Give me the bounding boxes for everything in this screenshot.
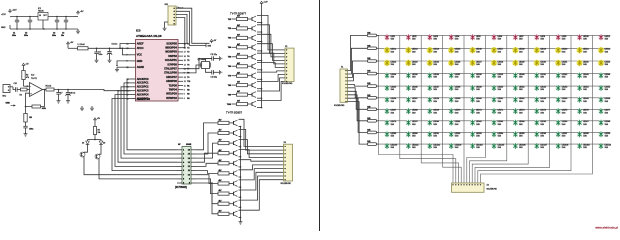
LED D36 row 4 col 3 xyxy=(427,73,439,79)
svg-text:LED65: LED65 xyxy=(583,98,589,100)
wire collector B1 xyxy=(239,119,284,146)
wire base stub T3 xyxy=(228,38,237,40)
svg-text:ADC4/PC4: ADC4/PC4 xyxy=(137,93,149,96)
svg-text:LED72: LED72 xyxy=(498,110,504,112)
svg-text:T70: T70 xyxy=(228,76,231,78)
svg-text:13: 13 xyxy=(184,77,186,79)
svg-text:4k7: 4k7 xyxy=(219,189,222,192)
LED D43 row 4 col 10 xyxy=(577,73,589,79)
svg-text:LED101: LED101 xyxy=(412,145,419,147)
LED D6 row 1 col 6 xyxy=(491,34,502,40)
LED D34 row 4 col 1 xyxy=(384,73,396,79)
LED D17 row 2 col 6 xyxy=(491,47,503,54)
wire base stub T8 xyxy=(228,85,237,87)
svg-text:AREF: AREF xyxy=(137,42,144,45)
LED D100 row 10 col 1 xyxy=(384,143,397,149)
ground IR a xyxy=(80,106,84,111)
svg-text:T10: T10 xyxy=(228,19,231,21)
resistor RR8 row 8 xyxy=(367,118,379,122)
capacitor C4 xyxy=(61,17,68,37)
wire emitter B2 xyxy=(239,136,242,138)
wire GND rail xyxy=(1,25,78,30)
wire emitter T1 xyxy=(257,22,262,24)
wire row feed 6 xyxy=(348,88,368,98)
svg-text:LED36: LED36 xyxy=(433,74,439,76)
svg-text:T3: T3 xyxy=(187,52,189,54)
svg-text:4k7: 4k7 xyxy=(219,149,222,152)
svg-text:LED56: LED56 xyxy=(391,98,397,100)
connector MIC input xyxy=(3,85,16,98)
svg-text:LED57: LED57 xyxy=(412,98,418,100)
LED D7 row 1 col 7 xyxy=(513,34,524,40)
svg-text:T4: T4 xyxy=(187,55,189,58)
svg-text:LED102: LED102 xyxy=(433,145,440,147)
svg-text:C7: C7 xyxy=(60,93,62,95)
svg-text:100k: 100k xyxy=(42,108,46,110)
svg-text:LED16: LED16 xyxy=(476,49,482,51)
wire base drive B7 xyxy=(196,175,218,184)
svg-text:LED92: LED92 xyxy=(455,133,461,135)
svg-text:LED97: LED97 xyxy=(562,133,568,135)
wire row line 10 xyxy=(379,143,610,145)
wire base drive B9 xyxy=(196,183,218,204)
LED D56 row 6 col 1 xyxy=(384,97,396,103)
LED D66 row 6 col 11 xyxy=(598,97,610,103)
svg-text:LED90: LED90 xyxy=(412,133,418,135)
svg-text:4k7: 4k7 xyxy=(237,15,240,18)
voltage regulator IC1 78L05 xyxy=(38,8,48,29)
wire emitter B9 xyxy=(239,207,242,209)
LED D101 row 10 col 2 xyxy=(406,143,419,149)
svg-text:RESET/PC6: RESET/PC6 xyxy=(137,98,151,101)
wire base stub T1 xyxy=(228,19,237,21)
svg-text:LED100: LED100 xyxy=(391,145,398,147)
LED D31 row 3 col 9 xyxy=(555,60,567,67)
svg-text:LED78: LED78 xyxy=(391,121,397,123)
wire opamp out xyxy=(43,89,47,91)
wire +5V rail xyxy=(48,16,74,18)
resistor R23 4k7 xyxy=(218,149,229,155)
svg-text:R4: R4 xyxy=(187,97,189,100)
LED D107 row 10 col 8 xyxy=(534,143,547,149)
resistor R16 4k7 xyxy=(237,71,248,77)
svg-text:LED110: LED110 xyxy=(605,145,611,147)
resistor R13 4k7 xyxy=(237,43,248,49)
svg-text:4k7: 4k7 xyxy=(219,139,222,142)
svg-text:LED71: LED71 xyxy=(476,110,482,112)
svg-text:LED44: LED44 xyxy=(605,74,611,76)
svg-text:T100: T100 xyxy=(227,104,231,106)
LED D8 row 1 col 8 xyxy=(534,34,545,40)
wire row feed 2 xyxy=(348,48,368,74)
wire collector B2 xyxy=(239,129,284,150)
LED D77 row 7 col 11 xyxy=(598,108,610,114)
wire column 4 xyxy=(443,35,462,183)
resistor R2 xyxy=(22,67,29,86)
LED D24 row 3 col 2 xyxy=(405,60,417,67)
svg-text:LED38: LED38 xyxy=(476,74,482,76)
wire ISP4 xyxy=(176,18,185,48)
wire emitter T5 xyxy=(257,60,262,62)
LED D40 row 4 col 7 xyxy=(513,73,525,79)
transistor Q21 BD957 xyxy=(229,130,238,136)
LED D4 row 1 col 4 xyxy=(449,34,460,40)
wire row line 2 xyxy=(379,47,610,49)
svg-text:LED55: LED55 xyxy=(605,87,611,89)
LED D72 row 7 col 6 xyxy=(491,108,503,114)
svg-text:AVCC: AVCC xyxy=(137,47,144,50)
svg-text:VCC: VCC xyxy=(137,54,142,57)
ground IR b xyxy=(90,106,94,111)
svg-text:LED68: LED68 xyxy=(412,110,418,112)
svg-text:20: 20 xyxy=(127,48,129,50)
resistor R14 4k7 xyxy=(237,52,248,58)
svg-text:LED88: LED88 xyxy=(605,121,611,123)
wire row line 6 xyxy=(379,97,610,99)
wire base stub T5 xyxy=(228,57,237,59)
wire ADC2 to IC4 xyxy=(121,87,177,158)
wire Q4 out xyxy=(99,159,177,179)
resistor R5 xyxy=(46,85,55,91)
svg-text:LED48: LED48 xyxy=(455,87,461,89)
svg-text:LED34: LED34 xyxy=(391,74,397,76)
svg-text:LED27: LED27 xyxy=(476,61,482,63)
wire emitter bus xyxy=(240,127,242,220)
resistor R26 4k7 xyxy=(218,179,229,185)
transistor Q23 BD957 xyxy=(229,150,238,156)
wire emitter T4 xyxy=(257,50,262,52)
LED D86 row 8 col 9 xyxy=(556,120,568,126)
svg-text:R5 10k: R5 10k xyxy=(46,85,52,87)
resistor RR9 row 9 xyxy=(367,129,379,133)
svg-text:LED40: LED40 xyxy=(519,74,525,76)
wire ADC0 to IC4 xyxy=(127,79,177,150)
svg-text:LED86: LED86 xyxy=(562,121,568,123)
LED D73 row 7 col 7 xyxy=(513,108,525,114)
svg-text:T6: T6 xyxy=(187,64,189,66)
transistor Q20 BD957 xyxy=(229,120,238,126)
resistor R10 4k7 xyxy=(237,15,248,21)
svg-text:78L05: 78L05 xyxy=(38,11,44,13)
svg-text:LED15: LED15 xyxy=(455,49,461,51)
resistor R12 4k7 xyxy=(237,34,248,40)
LED D18 row 2 col 7 xyxy=(512,47,524,54)
wire collector B5 xyxy=(239,160,284,162)
svg-text:T10: T10 xyxy=(187,81,190,83)
resistor RR10 row 10 xyxy=(367,141,379,145)
LED D104 row 10 col 5 xyxy=(470,143,483,149)
transistor Q16 BD977 xyxy=(248,73,257,79)
wire collector B4 xyxy=(239,150,284,158)
capacitor C11 xyxy=(211,54,218,61)
svg-text:4k7: 4k7 xyxy=(237,81,240,84)
wire base drive B5 xyxy=(196,163,218,166)
resistor R15 4k7 xyxy=(237,62,248,68)
svg-text:LED52: LED52 xyxy=(540,87,546,89)
svg-text:LED60: LED60 xyxy=(476,98,482,100)
svg-text:LED42: LED42 xyxy=(562,74,568,76)
wire row line 9 xyxy=(379,131,610,133)
LED D70 row 7 col 4 xyxy=(449,108,461,114)
svg-text:LED67: LED67 xyxy=(391,110,397,112)
transistor Q15 BD977 xyxy=(248,63,257,69)
wire collector T6 xyxy=(257,63,285,68)
driver IC4 X1776321 xyxy=(175,144,196,189)
wire emitter T10 xyxy=(257,107,262,109)
resistor R19 4k7 xyxy=(237,100,248,106)
svg-text:Q1 16MHz: Q1 16MHz xyxy=(198,59,207,61)
svg-text:LED105: LED105 xyxy=(498,145,505,147)
LED D23 row 3 col 1 xyxy=(384,60,396,67)
LED D11 row 1 col 11 xyxy=(598,34,610,40)
svg-text:OUT: OUT xyxy=(43,15,46,17)
svg-text:LED103: LED103 xyxy=(455,145,462,147)
wire emitter B1 xyxy=(239,126,242,128)
wire emitter B8 xyxy=(239,196,242,198)
svg-text:11: 11 xyxy=(184,85,186,87)
LED D26 row 3 col 4 xyxy=(448,60,460,67)
ground C12 xyxy=(218,70,222,74)
wire feedback xyxy=(26,90,45,107)
svg-text:MISO/PB4: MISO/PB4 xyxy=(165,47,177,50)
svg-text:L1 10uH: L1 10uH xyxy=(78,44,86,46)
LED D87 row 8 col 10 xyxy=(577,120,589,126)
svg-text:IC3: IC3 xyxy=(136,29,141,33)
wire column 1 xyxy=(378,35,453,183)
wire AREF xyxy=(120,44,131,49)
svg-text:C12 22p: C12 22p xyxy=(211,77,217,79)
ground C11 xyxy=(218,56,222,60)
connector X4 row feed xyxy=(334,67,348,107)
wire bias junction xyxy=(24,85,30,87)
wire AVCC line 2 xyxy=(88,48,131,50)
svg-text:4k7: 4k7 xyxy=(219,209,222,212)
LED D46 row 5 col 2 xyxy=(406,85,418,91)
LED D57 row 6 col 2 xyxy=(406,97,418,103)
resistor R27 4k7 xyxy=(218,189,229,195)
svg-text:T50: T50 xyxy=(228,57,231,59)
resistor R25 4k7 xyxy=(218,169,229,175)
svg-text:HGNE: HGNE xyxy=(186,144,192,146)
LED D16 row 2 col 5 xyxy=(469,47,481,54)
LED D76 row 7 col 10 xyxy=(577,108,589,114)
resistor R3 xyxy=(20,88,28,96)
svg-text:LED93: LED93 xyxy=(476,133,482,135)
LED D14 row 2 col 3 xyxy=(427,47,439,54)
LED D22 row 2 col 11 xyxy=(598,47,610,54)
svg-text:4k7: 4k7 xyxy=(237,90,240,93)
svg-text:INT0/PD2: INT0/PD2 xyxy=(166,97,177,100)
transistor Q26 BD957 xyxy=(229,181,238,187)
wire row line 8 xyxy=(379,120,610,122)
svg-text:LED96: LED96 xyxy=(540,133,546,135)
wire collector B7 xyxy=(239,169,284,180)
wire emitter T6 xyxy=(257,69,262,71)
LED D88 row 8 col 11 xyxy=(598,120,610,126)
svg-text:100n: 100n xyxy=(52,35,56,37)
svg-text:LED26: LED26 xyxy=(455,61,461,63)
LED D94 row 9 col 6 xyxy=(491,131,503,137)
LED D96 row 9 col 8 xyxy=(534,131,546,137)
ground PSU xyxy=(76,29,80,34)
svg-text:LED54: LED54 xyxy=(583,87,589,89)
wire row feed 8 xyxy=(348,95,368,121)
svg-text:C8 10u: C8 10u xyxy=(70,93,76,95)
LED D29 row 3 col 7 xyxy=(512,60,524,67)
svg-text:R3: R3 xyxy=(20,95,22,97)
svg-text:T80: T80 xyxy=(228,85,231,87)
transistor Q24 BD957 xyxy=(229,160,238,166)
wire collector T5 xyxy=(257,53,285,64)
svg-text:LED69: LED69 xyxy=(433,110,439,112)
svg-text:X3: X3 xyxy=(284,142,286,144)
wire collector T9 xyxy=(257,78,285,91)
ground MCU xyxy=(115,67,119,72)
wire base stub T4 xyxy=(228,46,237,49)
svg-text:LED87: LED87 xyxy=(583,121,589,123)
capacitor C5 xyxy=(94,48,102,58)
wire collector B9 xyxy=(239,176,284,200)
wire base drive B1 xyxy=(196,123,218,150)
resistor R21 4k7 xyxy=(218,129,229,135)
svg-text:LED9: LED9 xyxy=(562,36,567,38)
svg-text:LED49: LED49 xyxy=(476,87,482,89)
svg-text:LED11: LED11 xyxy=(605,36,610,38)
svg-text:LED51: LED51 xyxy=(519,87,525,89)
ground C8 xyxy=(66,99,70,104)
svg-text:LED99: LED99 xyxy=(605,133,611,135)
svg-text:X1: X1 xyxy=(341,67,343,69)
LED D44 row 4 col 11 xyxy=(598,73,610,79)
svg-text:LED13: LED13 xyxy=(412,49,418,51)
svg-text:AIN1/PD7: AIN1/PD7 xyxy=(166,76,177,79)
svg-text:LED17: LED17 xyxy=(498,49,504,51)
resistor RR2 row 2 xyxy=(367,45,379,49)
LED D82 row 8 col 5 xyxy=(470,120,482,126)
wire ISP2 xyxy=(176,11,212,47)
svg-text:LED98: LED98 xyxy=(583,133,589,135)
svg-text:330n: 330n xyxy=(24,35,28,37)
watermark xyxy=(595,226,618,230)
power flag +5V opamp xyxy=(22,63,29,67)
svg-text:ATMEGA8A DIL28: ATMEGA8A DIL28 xyxy=(136,34,162,38)
LED D50 row 5 col 6 xyxy=(491,85,503,91)
wire row feed 4 xyxy=(348,74,368,81)
label GND sense xyxy=(6,102,16,106)
LED D95 row 9 col 7 xyxy=(513,131,525,137)
svg-text:LED84: LED84 xyxy=(519,121,525,123)
wire column 10 xyxy=(478,35,571,183)
LED D69 row 7 col 3 xyxy=(427,108,439,114)
wire collector T4 xyxy=(257,44,285,61)
svg-text:MIC: MIC xyxy=(3,96,7,98)
svg-text:100n: 100n xyxy=(29,128,33,130)
LED D28 row 3 col 6 xyxy=(491,60,503,67)
transistor Q25 BD957 xyxy=(229,171,238,177)
svg-text:4k7: 4k7 xyxy=(219,179,222,182)
wire collector B8 xyxy=(239,172,284,190)
LED D27 row 3 col 5 xyxy=(469,60,481,67)
svg-text:LED2: LED2 xyxy=(412,36,417,38)
svg-text:100n: 100n xyxy=(12,35,16,37)
ground C13 xyxy=(24,132,28,137)
wire base stub T7 xyxy=(228,76,237,78)
label TY-TR BD977 xyxy=(230,12,247,16)
resistor R22 4k7 xyxy=(218,139,229,145)
svg-text:LED106: LED106 xyxy=(519,145,526,147)
LED D53 row 5 col 9 xyxy=(556,85,568,91)
svg-text:4k7: 4k7 xyxy=(237,52,240,55)
resistor R18 4k7 xyxy=(237,90,248,96)
transistor Q12 BD977 xyxy=(248,35,257,41)
LED D37 row 4 col 4 xyxy=(449,73,461,79)
panel divider xyxy=(319,0,321,231)
svg-text:TL071: TL071 xyxy=(31,78,38,80)
LED D32 row 3 col 10 xyxy=(576,60,588,67)
LED D52 row 5 col 8 xyxy=(534,85,546,91)
wire collector T7 xyxy=(257,71,285,72)
svg-text:T40: T40 xyxy=(228,46,231,49)
svg-text:+12V: +12V xyxy=(12,10,17,12)
svg-text:X2: X2 xyxy=(487,185,489,187)
resistor R8 xyxy=(93,122,100,140)
wire emitter T2 xyxy=(257,31,262,33)
svg-text:100n: 100n xyxy=(99,54,103,56)
LED D1 row 1 col 1 xyxy=(384,34,395,40)
svg-text:LED75: LED75 xyxy=(562,110,568,112)
wire row feed 3 xyxy=(348,61,368,78)
LED D2 row 1 col 2 xyxy=(406,34,417,40)
svg-text:LED80: LED80 xyxy=(433,121,439,123)
wire out line xyxy=(54,89,131,92)
svg-text:+12V: +12V xyxy=(1,14,6,16)
wire base drive B2 xyxy=(196,133,218,154)
LED D62 row 6 col 7 xyxy=(513,97,525,103)
wire base stub T10 xyxy=(227,104,237,106)
wire column 8 xyxy=(472,35,528,183)
svg-text:4k7: 4k7 xyxy=(237,24,240,27)
wire column 6 xyxy=(467,35,486,183)
svg-text:SCK/PB5: SCK/PB5 xyxy=(166,42,177,45)
LED D38 row 4 col 5 xyxy=(470,73,482,79)
LED D90 row 9 col 2 xyxy=(406,131,418,137)
capacitor C8 electrolytic xyxy=(65,90,75,99)
svg-text:10k: 10k xyxy=(98,132,101,134)
LED D39 row 4 col 6 xyxy=(491,73,503,79)
wire ADC5 to IC4 xyxy=(112,99,177,171)
svg-text:LED61: LED61 xyxy=(498,98,504,100)
wire row line 4 xyxy=(379,73,610,75)
LED D5 row 1 col 5 xyxy=(470,34,481,40)
svg-text:T60: T60 xyxy=(228,66,231,68)
ground C6 xyxy=(108,58,112,63)
svg-text:SS/PB2: SS/PB2 xyxy=(168,55,177,58)
svg-text:C6 10u: C6 10u xyxy=(112,44,118,46)
svg-text:LED41: LED41 xyxy=(540,74,546,76)
LED D61 row 6 col 6 xyxy=(491,97,503,103)
svg-text:R3: R3 xyxy=(187,94,189,96)
connector X5 column collect xyxy=(452,183,498,192)
wire collector B3 xyxy=(239,140,284,154)
svg-text:INT1/PD3: INT1/PD3 xyxy=(166,93,177,96)
LED D64 row 6 col 9 xyxy=(556,97,568,103)
LED D42 row 4 col 9 xyxy=(556,73,568,79)
svg-text:LED76: LED76 xyxy=(583,110,589,112)
svg-text:C11 22p: C11 22p xyxy=(211,54,217,56)
LED D49 row 5 col 5 xyxy=(470,85,482,91)
LED D41 row 4 col 8 xyxy=(534,73,546,79)
svg-text:4k7: 4k7 xyxy=(237,43,240,46)
